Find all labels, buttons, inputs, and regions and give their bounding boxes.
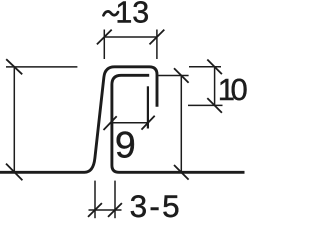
dimension 10 tick bottom [207, 98, 222, 113]
dimension 10 extension line bottom [188, 104, 223, 106]
left height dimension line [13, 67, 15, 172]
right height dimension line [180, 76, 182, 173]
right height extension line (inner top level) [158, 75, 188, 77]
dimension 9 tick right [142, 116, 155, 130]
svg-text:9: 9 [115, 123, 136, 165]
label ~13 [104, 11, 119, 15]
dimension 10 line [214, 67, 216, 106]
dimension 9 line [112, 122, 148, 124]
dimension ~13 extension line right [156, 30, 158, 60]
dimension 10 extension line top [189, 66, 221, 68]
left sheet outer profile (baseline, slanted wall, top, right wall) [0, 67, 157, 173]
right sheet inner profile (right baseline, inner wall, inner top) [112, 75, 245, 172]
dimension ~13 extension line left [103, 30, 105, 60]
dimension 3-5 tick right [108, 203, 122, 217]
left height tick bottom [6, 164, 22, 181]
dimension 3-5 extension line right [114, 181, 116, 219]
dimension 3-5 tick left [88, 203, 102, 217]
svg-text:13: 13 [115, 0, 149, 30]
svg-text:3 - 5: 3 - 5 [130, 188, 180, 220]
dimension ~13 tick left [97, 30, 112, 45]
left height extension line (top surface level) [6, 66, 77, 68]
inner right wall (free edge line) [147, 86, 149, 128]
right height tick bottom [174, 165, 189, 180]
dimension 3-5 line [89, 209, 122, 211]
dimension 3-5 extension line left [94, 181, 96, 219]
left height tick top [6, 59, 22, 74]
svg-text:10: 10 [218, 72, 248, 107]
dimension 10 tick top [207, 60, 222, 75]
dimension ~13 line [104, 36, 157, 38]
dimension ~13 tick right [150, 30, 165, 45]
dimension 9 tick left [104, 116, 117, 130]
right height tick top [174, 68, 189, 83]
